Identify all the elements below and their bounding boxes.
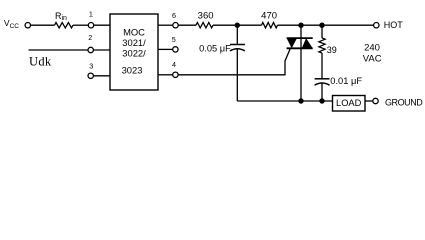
resistor R2 360	[196, 23, 213, 28]
triac Q1 right triangle	[302, 38, 313, 48]
wire capacitor C2 down to bottom rail	[321, 83, 323, 101]
pin 5 terminal circle	[173, 47, 178, 52]
svg-text:470: 470	[261, 11, 277, 22]
junction node A	[235, 23, 240, 28]
junction node B	[298, 23, 303, 28]
op-coupler box U1 MOC302x	[110, 14, 158, 90]
svg-text:6: 6	[172, 11, 176, 20]
triac Q1 main vertical	[300, 25, 302, 101]
resistor R4 39	[319, 38, 325, 53]
wire pin 4 to triac gate	[178, 48, 290, 75]
wire capacitor C1 down to bottom rail	[236, 49, 238, 101]
svg-text:LOAD: LOAD	[336, 98, 362, 108]
junction triac MT1 on bottom rail	[298, 98, 303, 103]
svg-text:3: 3	[89, 61, 93, 70]
wire Rin to pin 1	[73, 24, 88, 26]
triac Q1 bottom bar	[287, 47, 313, 49]
capacitor C1 0.05uF plates	[230, 44, 245, 46]
wire MOC box to pin 4	[158, 74, 173, 76]
junction node C	[319, 23, 324, 28]
wire resistor 39 to capacitor C2	[321, 53, 323, 79]
wire node B to node C	[301, 24, 322, 26]
svg-text:4: 4	[172, 60, 176, 69]
bottom rail wire	[237, 100, 332, 102]
VCC terminal circle	[25, 23, 30, 28]
svg-text:HOT: HOT	[384, 20, 404, 30]
wire 360 to node A	[213, 24, 237, 26]
wire node A down to capacitor C1	[236, 25, 238, 44]
triac Q1 top bar	[287, 37, 313, 39]
svg-text:39: 39	[327, 45, 337, 55]
svg-text:0.01 μF: 0.01 μF	[330, 76, 362, 86]
wire node C down to resistor 39	[321, 25, 323, 38]
svg-text:Udk: Udk	[29, 55, 52, 69]
junction snubber on bottom rail	[319, 98, 324, 103]
wire node C to HOT terminal	[322, 24, 374, 26]
wire 470 to node B	[278, 24, 302, 26]
GROUND terminal circle	[373, 98, 378, 103]
svg-text:GROUND: GROUND	[385, 98, 423, 108]
pin 2 terminal circle	[88, 47, 93, 52]
svg-text:MOC: MOC	[123, 27, 145, 38]
wire VCC terminal to Rin	[31, 24, 55, 26]
pin 3 terminal circle	[88, 73, 93, 78]
wire pin 3 to MOC box	[93, 75, 110, 77]
wire Udk to pin 2	[29, 49, 89, 51]
wire pin 6 to resistor 360	[178, 24, 196, 26]
svg-text:240: 240	[364, 43, 380, 54]
svg-text:3022/: 3022/	[122, 47, 146, 58]
capacitor C2 0.01uF plates	[315, 78, 330, 80]
wire pin 1 to MOC box	[94, 24, 110, 26]
pin 5 stub wire	[158, 48, 173, 50]
LOAD box	[333, 96, 366, 112]
wire node A to resistor 470	[237, 24, 261, 26]
svg-text:5: 5	[172, 35, 176, 44]
svg-text:3023: 3023	[122, 64, 143, 75]
svg-text:CC: CC	[10, 23, 20, 30]
svg-text:in: in	[62, 15, 68, 22]
svg-text:2: 2	[88, 33, 92, 42]
HOT terminal circle	[374, 23, 379, 28]
wire pin 2 to MOC box	[93, 49, 110, 51]
svg-text:360: 360	[198, 11, 214, 22]
wire LOAD to GROUND terminal	[365, 100, 373, 102]
pin 4 terminal circle	[173, 72, 178, 77]
resistor Rin	[55, 23, 74, 28]
svg-text:0.05 μF: 0.05 μF	[199, 44, 231, 54]
svg-text:1: 1	[89, 10, 93, 19]
triac Q1 left triangle	[287, 38, 297, 48]
pin 6 terminal circle	[173, 23, 178, 28]
resistor R3 470	[262, 23, 278, 28]
wire MOC box to pin 6	[158, 24, 173, 26]
svg-text:VAC: VAC	[363, 53, 382, 64]
pin 1 terminal circle	[88, 23, 93, 28]
